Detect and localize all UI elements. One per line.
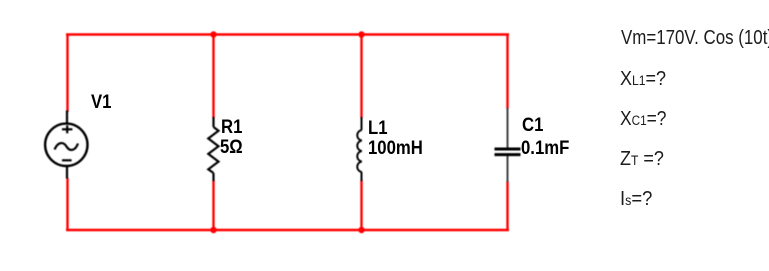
annotation line XL1 — [620, 69, 666, 89]
wire bottom — [66, 229, 509, 231]
wire R1 branch upper — [212, 34, 214, 118]
label 0.1mF — [521, 139, 569, 158]
label V1 — [91, 93, 111, 112]
label R1 — [221, 118, 242, 137]
wire R1 branch lower — [212, 180, 214, 230]
junction dot bottom L1 — [358, 227, 364, 233]
wire right upper segment — [506, 34, 508, 110]
junction dot top L1 — [358, 31, 364, 37]
label 5 ohm — [220, 138, 243, 157]
annotation line Is — [620, 189, 652, 209]
wire top — [66, 33, 509, 35]
capacitor C1 — [495, 108, 521, 182]
wire L1 branch lower — [360, 180, 362, 230]
inductor L1 — [357, 117, 362, 181]
junction dot bottom R1 — [210, 227, 216, 233]
annotation line ZT — [620, 149, 664, 169]
label C1 — [522, 116, 543, 135]
wire left upper segment — [66, 34, 68, 113]
junction dot top R1 — [210, 31, 216, 37]
annotation line Vm — [621, 28, 769, 48]
voltage source V1 — [45, 111, 87, 179]
resistor R1 — [208, 117, 218, 181]
wire left lower segment — [66, 178, 68, 231]
label L1 — [368, 119, 388, 138]
wire L1 branch upper — [360, 34, 362, 118]
annotation line XC1 — [620, 109, 666, 129]
label 100mH — [368, 139, 423, 158]
wire right lower segment — [506, 181, 508, 231]
